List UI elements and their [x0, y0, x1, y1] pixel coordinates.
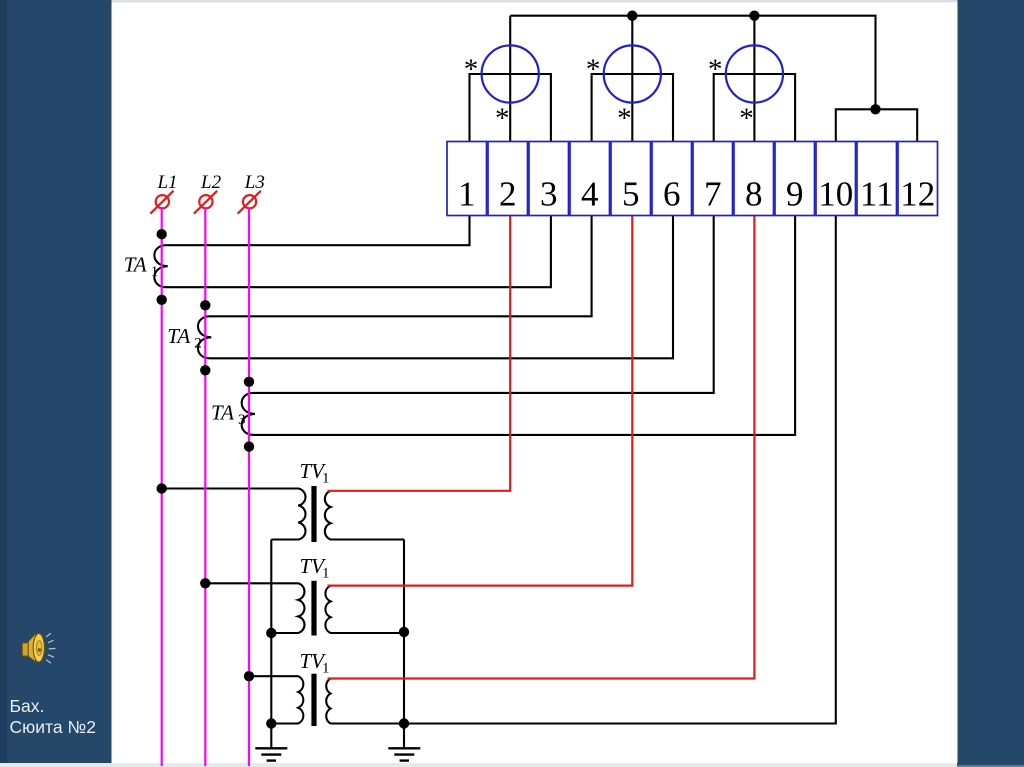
svg-text:1: 1 [322, 471, 330, 487]
svg-text:*: * [708, 54, 723, 86]
svg-text:L3: L3 [244, 172, 265, 193]
svg-text:10: 10 [818, 175, 853, 214]
svg-text:TA: TA [124, 253, 147, 277]
svg-text:Сюита №2: Сюита №2 [10, 717, 96, 737]
svg-text:1: 1 [458, 175, 476, 214]
svg-text:2: 2 [194, 335, 202, 351]
svg-text:L1: L1 [156, 172, 177, 193]
svg-text:*: * [586, 54, 601, 86]
svg-text:L2: L2 [200, 172, 222, 193]
svg-text:1: 1 [151, 264, 159, 280]
svg-text:8: 8 [745, 175, 763, 214]
svg-text:11: 11 [860, 175, 894, 214]
svg-text:*: * [464, 54, 479, 86]
svg-text:6: 6 [663, 175, 681, 214]
svg-text:5: 5 [622, 175, 640, 214]
svg-text:3: 3 [540, 175, 558, 214]
svg-text:1: 1 [322, 566, 330, 582]
svg-text:*: * [739, 103, 754, 135]
svg-text:TA: TA [167, 324, 190, 348]
svg-text:3: 3 [238, 412, 246, 428]
svg-text:TA: TA [211, 400, 234, 424]
svg-text:7: 7 [704, 175, 722, 214]
svg-text:1: 1 [322, 661, 330, 677]
svg-text:2: 2 [499, 175, 517, 214]
svg-text:*: * [495, 103, 510, 135]
svg-text:*: * [617, 103, 632, 135]
svg-text:Бах.: Бах. [10, 696, 45, 716]
svg-text:4: 4 [581, 175, 599, 214]
svg-text:9: 9 [786, 175, 804, 214]
svg-text:12: 12 [900, 175, 935, 214]
